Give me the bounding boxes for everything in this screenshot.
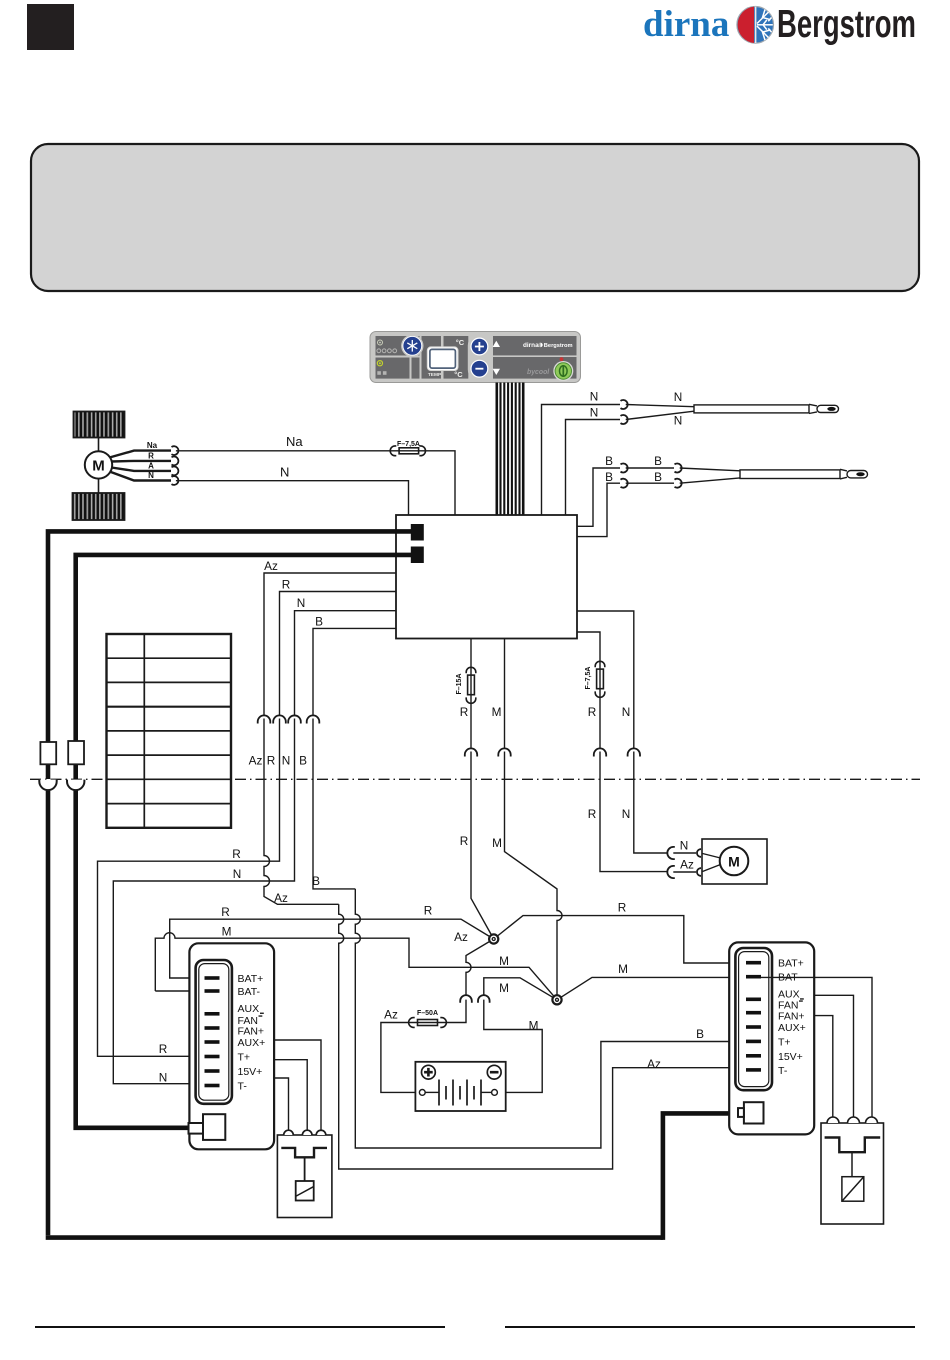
right relay (solenoid) (821, 1117, 884, 1224)
control unit connector block 1 (black) (411, 524, 424, 541)
svg-text:T+: T+ (778, 1036, 791, 1048)
svg-text:M: M (92, 458, 105, 475)
svg-text:Az: Az (384, 1008, 398, 1022)
right thermostat block (729, 942, 814, 1134)
evaporator fan top (hatched) (74, 412, 125, 438)
svg-text:N: N (590, 406, 599, 420)
wire N motor to control unit (176, 465, 409, 516)
harness wire N from control unit (113, 611, 396, 1084)
panel logo text (523, 342, 573, 349)
left relay (water valve) (277, 1130, 332, 1217)
harness wire Az from control unit (264, 573, 396, 904)
wire B1 to duct sensor (577, 454, 620, 526)
footer rule left (35, 1326, 445, 1328)
power button (553, 357, 573, 381)
node junction 1 wires (R distribution) (170, 916, 748, 996)
svg-text:N: N (148, 471, 154, 480)
svg-text:Az: Az (249, 754, 263, 768)
svg-text:B: B (312, 874, 320, 888)
right block pins (746, 961, 761, 1072)
right block output connector square (738, 1102, 764, 1123)
wire B to right block T+ (355, 889, 748, 1148)
wire Az to fuse F-50A and battery (381, 1000, 466, 1093)
panel icons left (377, 340, 397, 375)
svg-text:AUX: AUX (238, 1003, 260, 1015)
evaporator fan bottom (hatched) (73, 493, 125, 520)
connector on wire 2 (67, 780, 84, 791)
svg-text:A: A (148, 462, 154, 471)
wire N1 to cab sensor (542, 390, 621, 516)
node junction 1 (489, 934, 498, 943)
svg-text:M: M (222, 925, 232, 939)
svg-text:M: M (529, 1019, 539, 1033)
svg-text:T-: T- (778, 1065, 788, 1077)
left block pins (205, 976, 220, 1087)
svg-text:R: R (460, 705, 469, 719)
svg-text:F–7,5A: F–7,5A (585, 667, 592, 690)
harness wire R from control unit (98, 592, 397, 1057)
svg-text:M: M (728, 854, 740, 870)
footer rule right (505, 1326, 915, 1328)
information box (empty grey rounded rectangle) (31, 144, 919, 291)
svg-text:B: B (299, 754, 307, 768)
svg-text:Az: Az (454, 930, 468, 944)
svg-text:N: N (280, 465, 289, 480)
N labels after connector (674, 390, 683, 428)
svg-text:B: B (654, 454, 662, 468)
svg-text:BAT+: BAT+ (778, 958, 804, 970)
header black square (27, 4, 74, 50)
svg-text:R: R (148, 452, 154, 461)
svg-text:N: N (622, 807, 631, 821)
svg-text:R: R (232, 847, 241, 861)
thick battery feed wire 1 (46, 531, 738, 1240)
svg-text:FAN+: FAN+ (238, 1026, 265, 1038)
cab temperature sensor probe (626, 404, 839, 419)
left block pin labels (238, 973, 266, 1093)
svg-text:°C: °C (454, 370, 463, 379)
wire N right to condenser motor (577, 611, 667, 853)
svg-text:M: M (499, 954, 509, 968)
dirna Bergstrom logo (643, 3, 916, 46)
fuse F-7,5A (top) (390, 441, 425, 456)
svg-text:R: R (618, 901, 627, 915)
svg-text:FAN+: FAN+ (778, 1011, 805, 1023)
motor lead connectors (172, 446, 179, 485)
svg-text:Bergstrom: Bergstrom (777, 3, 916, 46)
harness wire B from control unit (313, 628, 396, 889)
battery (415, 1062, 505, 1111)
svg-text:N: N (680, 839, 689, 853)
snowflake button (401, 335, 423, 357)
display (427, 347, 458, 378)
B sensor second connectors (675, 464, 682, 488)
labels on R N wires to thermostat block (159, 847, 320, 1085)
svg-text:N: N (159, 1071, 168, 1085)
svg-text:B: B (696, 1027, 704, 1041)
svg-text:15V+: 15V+ (778, 1051, 803, 1063)
bulkhead connectors on R M R N wires (465, 748, 640, 756)
svg-text:R: R (221, 905, 230, 919)
svg-text:N: N (282, 754, 291, 768)
svg-text:R: R (588, 807, 597, 821)
wire Na to control unit (176, 434, 455, 515)
svg-text:Az: Az (647, 1057, 661, 1071)
wire N2 to cab sensor (566, 406, 621, 516)
relay table (2 x 8 grid) (107, 634, 232, 828)
condenser motor M2 (702, 839, 767, 884)
svg-text:°C: °C (456, 338, 465, 347)
B jumper wires (626, 454, 674, 484)
fuse F-50A (409, 1010, 447, 1027)
wire M from control unit bottom (505, 639, 563, 996)
node junction 2 (552, 995, 561, 1004)
svg-text:T+: T+ (238, 1052, 251, 1064)
svg-text:15V+: 15V+ (238, 1066, 263, 1078)
wire B2 to duct sensor (577, 470, 620, 537)
svg-text:Bergstrom: Bergstrom (544, 343, 573, 349)
svg-text:N: N (233, 867, 242, 881)
left block output connector square (189, 1114, 226, 1140)
svg-text:B: B (315, 615, 323, 629)
N sensor connectors (621, 400, 628, 424)
svg-text:R: R (159, 1042, 168, 1056)
right block pin labels (778, 958, 806, 1077)
svg-text:M: M (492, 836, 502, 850)
harness bulkhead connectors (258, 715, 320, 723)
wire R with fuse F-15A from control unit bottom (471, 639, 494, 940)
svg-text:R: R (424, 904, 433, 918)
svg-text:BAT-: BAT- (238, 986, 261, 998)
control unit box (396, 515, 577, 639)
svg-text:T-: T- (238, 1080, 248, 1092)
connector on Az battery wire (460, 995, 472, 1003)
svg-text:AUX+: AUX+ (778, 1022, 806, 1034)
motor lead labels (147, 441, 158, 480)
fuse holder on wire 1 (40, 742, 56, 764)
wire M distribution (155, 933, 748, 1093)
left block wires to relay (274, 1040, 321, 1130)
svg-text:Na: Na (286, 434, 303, 449)
wire R right with fuse F-7,5A (577, 632, 667, 872)
svg-text:F–15A: F–15A (456, 673, 463, 694)
control unit connector block 2 (black) (411, 547, 424, 564)
fuse holder on wire 2 (68, 741, 84, 764)
condenser motor connectors N (667, 839, 701, 860)
bycool control panel (370, 332, 581, 383)
svg-text:AUX+: AUX+ (238, 1037, 266, 1049)
svg-text:B: B (605, 454, 613, 468)
svg-text:bycool: bycool (527, 369, 550, 376)
svg-text:Na: Na (147, 441, 158, 450)
ribbon cable from panel to control unit (497, 383, 523, 516)
svg-text:R: R (267, 754, 276, 768)
svg-text:B: B (605, 470, 613, 484)
svg-text:F–7,5A: F–7,5A (397, 441, 420, 448)
svg-text:B: B (654, 470, 662, 484)
blower motor M1 (85, 438, 112, 494)
svg-text:N: N (622, 705, 631, 719)
plus minus capsule (468, 334, 491, 381)
svg-text:BAT+: BAT+ (238, 973, 264, 985)
harness labels below bulkhead (249, 754, 307, 768)
svg-text:R: R (282, 578, 291, 592)
svg-text:dirna: dirna (643, 4, 729, 45)
svg-text:N: N (297, 596, 306, 610)
thick battery feed wire 2 (73, 555, 411, 1128)
up down arrows (493, 341, 500, 347)
condenser motor connectors Az (667, 858, 701, 879)
svg-text:dirna: dirna (523, 342, 539, 349)
svg-text:R: R (460, 834, 469, 848)
svg-text:TEMP: TEMP (428, 372, 442, 378)
svg-text:M: M (492, 705, 502, 719)
svg-text:F–50A: F–50A (417, 1010, 438, 1017)
right block wires to relay (761, 977, 872, 1118)
cab bulkhead dash-dot line (30, 778, 920, 780)
svg-text:N: N (674, 390, 683, 404)
svg-text:N: N (674, 414, 683, 428)
motor leads Na R A N (110, 451, 172, 481)
connector on M battery wire (478, 995, 490, 1003)
svg-text:M: M (499, 981, 509, 995)
svg-text:M: M (618, 962, 628, 976)
wire Az to right block T- (339, 904, 748, 1169)
fuse F-7,5A (right) (585, 661, 605, 697)
B sensor first connectors (621, 464, 628, 488)
svg-text:R: R (588, 705, 597, 719)
left thermostat block (189, 943, 274, 1149)
svg-text:Az: Az (264, 559, 278, 573)
connector on wire 1 (39, 780, 56, 791)
fuse F-15A (456, 667, 476, 703)
svg-text:Az: Az (274, 891, 288, 905)
svg-text:Az: Az (680, 858, 694, 872)
duct temperature sensor probe (680, 468, 868, 483)
svg-text:N: N (590, 390, 599, 404)
